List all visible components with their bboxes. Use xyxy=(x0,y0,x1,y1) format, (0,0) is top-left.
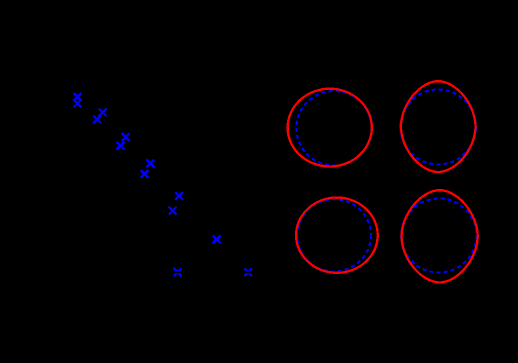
scatter marker 3a xyxy=(122,133,130,141)
scatter marker 2b xyxy=(93,116,101,124)
panel BR: blue dashed original contour xyxy=(401,199,476,273)
panel TL: red reconstructed ellipse xyxy=(288,89,372,167)
scatter marker 7a xyxy=(174,268,182,276)
panel TR: blue dashed original contour xyxy=(401,90,476,165)
scatter marker 2a xyxy=(99,108,107,116)
scatter marker 6 xyxy=(213,236,221,244)
scatter marker 4a xyxy=(147,160,155,168)
panel BL: blue dashed original contour xyxy=(297,199,371,271)
scatter marker 5a xyxy=(175,192,183,200)
scatter marker 4b xyxy=(141,170,149,178)
axis spine band over bottom markers xyxy=(62,271,272,273)
scatter marker 7b xyxy=(244,268,252,276)
scatter marker 5b xyxy=(169,207,177,215)
scatter marker 1a xyxy=(74,93,82,101)
panel BR: red reconstructed lemon curve xyxy=(402,190,478,282)
panel TR: red reconstructed lemon curve xyxy=(401,81,476,172)
panel BL: red reconstructed ellipse xyxy=(296,198,378,273)
panel TL: blue dashed original contour xyxy=(296,91,371,165)
scatter marker 1b xyxy=(74,100,82,108)
scatter marker 3b xyxy=(117,142,125,150)
